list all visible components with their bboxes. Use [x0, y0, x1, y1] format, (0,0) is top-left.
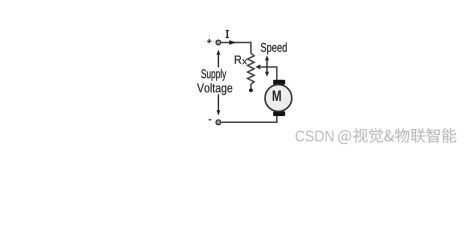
wire: wiper to motor top [261, 67, 277, 80]
current direction arrowhead [229, 40, 236, 45]
supply voltage down arrow shaft [217, 94, 219, 110]
label Voltage [197, 83, 232, 95]
motor M top brush block [273, 80, 285, 85]
wire: motor bottom to - terminal [222, 116, 277, 122]
watermark char 视 [353, 128, 368, 142]
speed adjust double-headed arrow shaft [266, 59, 268, 74]
supply voltage up arrowhead [216, 50, 220, 55]
node: + terminal circle [216, 40, 221, 45]
label Supply [201, 69, 226, 81]
label Speed [261, 42, 287, 54]
label M (motor) [273, 90, 281, 101]
watermark char 觉 [369, 128, 383, 142]
watermark char 物 [395, 128, 409, 142]
label x subscript of Rx [242, 59, 247, 64]
wire: + terminal to resistor top [222, 43, 251, 54]
speed arrow top head [265, 55, 269, 60]
watermark char ampersand [384, 130, 394, 142]
label R of Rx [235, 56, 241, 64]
label I (current) [226, 31, 229, 38]
node: resistor Rx open end dot [249, 88, 253, 92]
minus sign - (supply negative polarity) [209, 119, 212, 121]
supply voltage down arrowhead [216, 110, 220, 115]
watermark char 能 [442, 128, 456, 142]
plus sign + (supply positive polarity) [207, 39, 212, 43]
resistor Rx (rheostat zigzag) [248, 53, 255, 88]
watermark text CSDN [296, 131, 334, 142]
watermark char at-sign [338, 130, 351, 144]
watermark char 智 [426, 128, 439, 142]
motor M body circle [265, 85, 292, 112]
watermark char 联 [411, 129, 426, 143]
node: - terminal circle [216, 120, 221, 125]
motor M bottom brush block [273, 111, 285, 116]
supply voltage up arrow shaft [217, 55, 219, 68]
wiper arrowhead (points left into Rx) [255, 64, 260, 69]
speed arrow bottom head [265, 72, 269, 77]
